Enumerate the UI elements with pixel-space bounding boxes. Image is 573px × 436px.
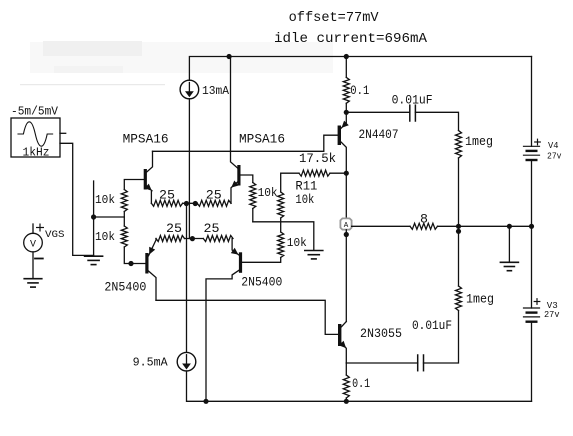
wire A to Q6 collector: [345, 230, 347, 322]
svg-text:10k: 10k: [287, 236, 307, 250]
transistor Q1 emitter arrow: [144, 184, 151, 191]
label offset=77mV: [289, 10, 380, 26]
label 0.01uF bottom: [412, 319, 452, 333]
transistor Q2 bar: [237, 165, 240, 186]
label 0.01uF top: [392, 93, 433, 107]
wire 10k top to base Q1: [124, 180, 143, 190]
label idle current=696mA: [274, 31, 428, 47]
wire R11 bottom: [280, 218, 282, 232]
wire I2 to rail: [187, 371, 532, 401]
node bottom rail b: [344, 399, 349, 404]
label 2N5400 left: [104, 281, 146, 295]
label 2N5400 right: [241, 276, 282, 290]
svg-text:27v: 27v: [544, 309, 560, 320]
svg-text:25: 25: [166, 222, 182, 236]
source VGS top stem: [32, 224, 34, 233]
transistor Q5 emitter: [341, 112, 346, 128]
wire 8 to rail end: [438, 225, 532, 227]
svg-text:25: 25: [206, 189, 222, 203]
node out gnd: [507, 224, 512, 229]
wire 0.1 bottom lead2: [345, 398, 347, 401]
svg-text:-5m/5mV: -5m/5mV: [11, 106, 58, 119]
transistor Q5 emitter arrow: [342, 121, 349, 128]
svg-text:MPSA16: MPSA16: [123, 132, 169, 146]
wire Q3 collector to Q6 base: [156, 300, 338, 334]
label V3: [547, 300, 558, 311]
node A flag: [340, 218, 351, 230]
label R11: [295, 180, 317, 194]
wire R11 top: [281, 173, 299, 192]
current source I2 9.5mA: [177, 352, 196, 371]
transistor Q6 emitter: [341, 343, 346, 363]
label -5m/5mV: [11, 106, 58, 119]
wire V4 bottom: [531, 160, 533, 226]
svg-text:2N5400: 2N5400: [104, 281, 146, 295]
battery V4 plus: [535, 139, 541, 145]
source VGS minus: [35, 258, 43, 260]
node Q5 emitter: [344, 110, 349, 115]
transistor Q3 emitter: [149, 239, 157, 256]
svg-text:10k: 10k: [95, 230, 115, 244]
transistor Q4 emitter: [232, 239, 239, 256]
svg-text:10k: 10k: [295, 193, 314, 207]
wire cap top left: [346, 111, 410, 113]
wire source out: [60, 143, 94, 255]
resistor 1meg bottom: [456, 286, 462, 311]
resistor 10k Q4 base: [278, 232, 284, 258]
transistor Q1 emitter: [147, 186, 152, 203]
wire output gnd stem: [508, 226, 510, 262]
svg-text:1kHz: 1kHz: [23, 147, 50, 160]
label 2N3055: [360, 327, 402, 341]
svg-text:0.1: 0.1: [352, 377, 370, 391]
svg-text:MPSA16: MPSA16: [239, 132, 285, 146]
battery V4: [524, 146, 540, 160]
resistor 8: [410, 223, 438, 229]
wire 0.1 bottom lead: [345, 103, 347, 112]
svg-text:A: A: [344, 222, 349, 230]
ground output: [500, 262, 518, 270]
wire 10k to gnd rail: [252, 209, 254, 222]
transistor Q3 emitter arrow: [149, 247, 155, 255]
source V1 plus stub: [60, 132, 66, 134]
wire V3 top: [531, 226, 533, 308]
wire cap bottom left: [346, 362, 417, 364]
label 10k Q2 base: [258, 186, 278, 200]
svg-text:2N4407: 2N4407: [359, 128, 399, 142]
svg-text:13mA: 13mA: [202, 84, 230, 98]
source VGS bottom stem: [32, 252, 34, 278]
label MPSA16 left: [123, 132, 169, 146]
svg-text:R11: R11: [295, 180, 317, 194]
svg-text:offset=77mV: offset=77mV: [289, 10, 380, 26]
label 25 row1 right: [206, 189, 222, 203]
wire 10k mid: [123, 212, 125, 227]
label 1meg top: [465, 135, 493, 149]
transistor Q4 collector: [206, 270, 239, 401]
label R11 10k: [295, 193, 314, 207]
transistor Q6 bar: [338, 324, 341, 346]
wire cap top right: [415, 112, 458, 130]
wire Q2 base: [241, 175, 253, 183]
node top rail B: [344, 54, 349, 59]
resistor 1meg top: [456, 131, 462, 159]
wire 1meg top lead: [458, 158, 460, 226]
wire Q1 collector rail: [153, 135, 338, 151]
resistor 25 row2 right: [203, 236, 233, 242]
battery V3 plus: [534, 299, 540, 305]
transistor Q2 emitter arrow: [231, 181, 238, 188]
label 25 row2 left: [166, 222, 182, 236]
svg-text:1meg: 1meg: [466, 293, 494, 307]
transistor Q2 emitter: [231, 182, 237, 203]
source VGS plus: [37, 224, 44, 231]
node out battery: [529, 224, 534, 229]
svg-text:10k: 10k: [95, 193, 115, 207]
resistor 10k Q2 base: [250, 183, 256, 209]
wire 1meg bottom lead: [458, 226, 460, 286]
svg-text:0.1: 0.1: [350, 84, 369, 98]
transistor Q4 bar: [239, 252, 242, 272]
node out 1meg b: [456, 229, 461, 234]
resistor R11 10k: [278, 192, 284, 218]
wire row2 mid: [185, 238, 204, 240]
wire A to 8: [352, 225, 410, 227]
capacitor 0.01uF bottom: [418, 355, 424, 371]
transistor Q1 collector: [147, 151, 153, 172]
label V4: [548, 140, 559, 151]
ground mid: [305, 251, 323, 259]
wire I1 to row2: [188, 99, 190, 239]
label 25 row2 right: [204, 222, 220, 236]
node out 1meg a: [456, 224, 461, 229]
node base Q3 wire: [128, 261, 133, 266]
node A junction: [344, 232, 349, 237]
svg-text:17.5k: 17.5k: [299, 152, 336, 166]
label 2N4407: [359, 128, 399, 142]
transistor Q3 collector: [149, 271, 157, 300]
wire divider tap line: [93, 181, 95, 255]
wire Q6 emitter down: [345, 363, 347, 375]
wire mid gnd rail: [253, 222, 314, 250]
svg-text:10k: 10k: [258, 186, 278, 200]
source V1 box: [11, 118, 60, 157]
battery V3: [524, 308, 540, 322]
svg-text:9.5mA: 9.5mA: [133, 356, 169, 370]
resistor 25 row1 right: [197, 200, 231, 206]
node bottom rail a: [203, 399, 208, 404]
wire 10k bottom to base Q3: [124, 247, 145, 264]
resistor 25 row1 left: [151, 200, 182, 206]
wire tap to divider: [94, 216, 125, 218]
transistor Q4 emitter arrow: [231, 248, 239, 255]
node top rail A: [227, 54, 232, 59]
svg-text:0.01uF: 0.01uF: [392, 93, 433, 107]
svg-text:2N3055: 2N3055: [360, 327, 402, 341]
node row2 tail: [190, 236, 195, 241]
label 27v V4: [547, 151, 562, 162]
label VGS: [45, 229, 65, 241]
wire 1meg to cap: [424, 311, 459, 364]
transistor Q1 bar: [144, 169, 147, 190]
ground input: [85, 256, 103, 264]
wire row1 tail down: [186, 203, 188, 352]
svg-text:0.01uF: 0.01uF: [412, 319, 452, 333]
svg-text:25: 25: [159, 189, 175, 203]
svg-text:27v: 27v: [547, 151, 562, 162]
wire 17.5k right: [330, 172, 346, 174]
transistor Q6 collector: [341, 322, 346, 327]
label MPSA16 right: [239, 132, 285, 146]
source VGS circle: [24, 233, 43, 252]
resistor 25 row2 left: [156, 236, 185, 242]
wire V3 bottom: [531, 322, 533, 402]
svg-text:idle current=696mA: idle current=696mA: [274, 31, 428, 47]
ground VGS: [24, 279, 42, 287]
label 25 row1 left: [159, 189, 175, 203]
wire 0.1 top lead: [345, 57, 347, 78]
label 10k Q4 base: [287, 236, 307, 250]
label 8: [420, 213, 428, 227]
svg-text:V: V: [30, 239, 36, 250]
transistor Q6 emitter arrow: [339, 341, 346, 348]
node row1 extra: [193, 201, 198, 206]
transistor Q5 collector: [341, 142, 346, 218]
wire Q4 base: [242, 258, 281, 263]
label 10k lower-left: [95, 230, 115, 244]
current source I1 13mA: [180, 80, 199, 99]
resistor 10k lower-left: [121, 226, 127, 247]
label 1meg bottom: [466, 293, 494, 307]
label 17.5k: [299, 152, 336, 166]
node divider tap: [91, 214, 96, 219]
node 17.5k junction: [344, 171, 349, 176]
wire V4 top: [531, 57, 533, 147]
label 27v V3: [544, 309, 560, 320]
wire top rail: [189, 57, 531, 81]
resistor 17.5k: [299, 170, 330, 176]
resistor 10k upper-left: [121, 190, 127, 212]
transistor Q3 bar: [145, 253, 148, 274]
label 9.5mA: [133, 356, 169, 370]
label 0.1 top: [350, 84, 369, 98]
wire row1 mid: [183, 202, 198, 204]
svg-text:8: 8: [420, 213, 428, 227]
svg-text:VGS: VGS: [45, 229, 65, 241]
label 10k upper-left: [95, 193, 115, 207]
svg-text:2N5400: 2N5400: [241, 276, 282, 290]
svg-text:25: 25: [204, 222, 220, 236]
transistor Q5 bar: [338, 126, 341, 146]
transistor Q2 collector: [231, 57, 238, 168]
label 1kHz: [23, 147, 50, 160]
label 0.1 bottom: [352, 377, 370, 391]
decorative faint box: [30, 42, 333, 73]
label 13mA: [202, 84, 230, 98]
node row1 tail: [184, 201, 189, 206]
resistor 0.1 bottom: [343, 375, 349, 398]
source V1 sine wave: [18, 122, 53, 146]
capacitor 0.01uF top: [410, 105, 416, 121]
resistor 0.1 top: [343, 77, 349, 103]
svg-text:1meg: 1meg: [465, 135, 493, 149]
